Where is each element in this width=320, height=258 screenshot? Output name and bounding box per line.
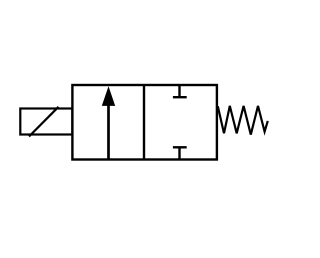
valve position divider	[143, 85, 145, 160]
solenoid coil actuator	[20, 109, 72, 135]
solenoid diagonal stroke	[29, 107, 59, 137]
valve body outer rectangle	[72, 85, 217, 160]
blocked port top (right position)	[173, 86, 187, 97]
flow path arrow (left position)	[102, 86, 115, 159]
blocked port bottom (right position)	[173, 147, 187, 158]
return spring	[218, 106, 268, 135]
